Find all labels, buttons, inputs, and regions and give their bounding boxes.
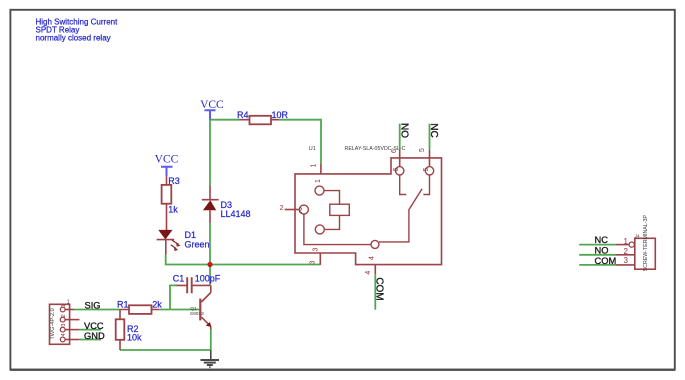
resistor R3 <box>162 176 172 230</box>
svg-text:1: 1 <box>311 163 318 167</box>
svg-text:GND: GND <box>84 331 105 341</box>
svg-text:COM: COM <box>595 256 617 266</box>
wire VCC1 down to D3 cathode <box>209 120 211 186</box>
transistor Q1 <box>199 285 211 329</box>
svg-text:2: 2 <box>299 207 303 214</box>
relay pin 6 <box>391 149 400 172</box>
svg-text:LL4148: LL4148 <box>221 209 251 219</box>
power flag VCC2 <box>155 154 179 177</box>
wire D1 cathode to junction A <box>166 255 210 265</box>
svg-text:1k: 1k <box>168 204 178 214</box>
wire NO net at relay pin6 <box>399 124 401 150</box>
svg-text:SIG: SIG <box>85 301 101 311</box>
wire R1 to Q1 base <box>159 309 199 311</box>
svg-text:10k: 10k <box>127 333 142 343</box>
relay pin 5 <box>419 148 430 172</box>
resistor R4 <box>240 116 280 125</box>
svg-text:NC: NC <box>428 123 439 137</box>
svg-text:R4: R4 <box>237 110 249 120</box>
svg-text:1: 1 <box>315 179 322 183</box>
svg-text:TWG-4P-2.0: TWG-4P-2.0 <box>50 308 56 339</box>
svg-text:VCC: VCC <box>84 321 104 331</box>
diode D3 <box>202 185 219 223</box>
relay pin 3 <box>310 247 321 264</box>
svg-text:10R: 10R <box>272 110 289 120</box>
svg-text:C1: C1 <box>173 274 185 284</box>
svg-text:D1: D1 <box>185 230 197 240</box>
connector P1 pin 2 <box>61 314 80 319</box>
svg-text:3: 3 <box>61 324 67 327</box>
svg-text:4: 4 <box>368 256 375 260</box>
svg-text:4: 4 <box>365 271 372 275</box>
wire junction A to relay pin3 <box>210 264 320 266</box>
wire junction A to Q1 collector <box>209 265 211 286</box>
svg-text:2: 2 <box>280 205 284 212</box>
svg-text:S9013: S9013 <box>190 311 204 317</box>
relay switch contacts <box>396 167 434 195</box>
svg-text:J4: J4 <box>635 234 640 239</box>
wire VCC stub at connector pin3 <box>79 329 101 331</box>
svg-text:R1: R1 <box>117 299 129 309</box>
LED D1 <box>157 230 181 255</box>
connector J4 pin 3 <box>615 256 635 265</box>
svg-text:4: 4 <box>61 333 67 336</box>
resistor R1 <box>120 305 159 314</box>
svg-text:3: 3 <box>624 256 629 265</box>
wire R2 bottom to ground net <box>120 349 211 351</box>
svg-text:5: 5 <box>423 167 430 171</box>
wire NC stub to J4 pin1 <box>579 244 615 246</box>
svg-text:COM: COM <box>374 277 385 300</box>
svg-text:3: 3 <box>310 260 317 264</box>
svg-text:NC: NC <box>595 235 609 245</box>
relay pin 2 <box>280 205 303 215</box>
svg-text:2k: 2k <box>152 299 162 309</box>
svg-text:3: 3 <box>313 247 320 251</box>
connector J4 pin 1 <box>615 237 634 247</box>
svg-text:Green: Green <box>185 240 210 250</box>
wire C1 left to base net <box>170 285 177 309</box>
relay coil <box>315 186 349 234</box>
connector J4 pin 2 <box>615 247 635 256</box>
power flag VCC1 <box>200 99 224 120</box>
svg-text:VCC: VCC <box>155 154 179 166</box>
wire R4 to relay pin1 <box>279 120 321 164</box>
svg-text:1: 1 <box>624 237 629 246</box>
svg-text:NO: NO <box>595 246 609 256</box>
connector P1 pin 1 <box>61 299 74 309</box>
svg-text:2: 2 <box>624 247 629 256</box>
svg-text:6: 6 <box>391 149 398 153</box>
wire D3 anode to junction A <box>209 223 211 264</box>
capacitor C1 <box>177 277 211 293</box>
svg-text:R3: R3 <box>168 176 180 186</box>
svg-text:SCREW-TERMINAL-3P: SCREW-TERMINAL-3P <box>643 215 649 272</box>
svg-text:NO: NO <box>398 123 409 138</box>
relay U1 body <box>295 146 442 265</box>
wire GND stub at connector pin4 <box>79 339 101 341</box>
svg-text:5: 5 <box>419 148 426 152</box>
relay armature and pin2 link <box>299 189 422 249</box>
connector P1 pin 3 <box>61 324 79 330</box>
junction A dot <box>207 262 212 267</box>
relay pin 4 <box>365 256 375 275</box>
svg-text:2: 2 <box>61 314 67 317</box>
svg-text:100pF: 100pF <box>195 274 221 284</box>
wire COM stub to J4 pin3 <box>579 264 615 266</box>
ground <box>201 350 220 367</box>
svg-text:U1: U1 <box>309 146 316 152</box>
wire Q1 emitter to ground net <box>210 330 212 351</box>
svg-text:1: 1 <box>67 299 70 305</box>
wire NO stub to J4 pin2 <box>579 254 615 256</box>
svg-text:6: 6 <box>393 167 400 171</box>
wire VCC1 to R4 <box>210 119 240 121</box>
wire SIG connector to R1 <box>74 309 120 311</box>
connector P1 TWG-4P-2.0 <box>50 304 70 344</box>
relay pin 1 <box>311 163 323 183</box>
wire COM net at relay pin4 <box>374 274 376 309</box>
connector P1 pin 4 <box>61 333 79 339</box>
wire NC net at relay pin5 <box>429 124 431 150</box>
connector J4 SCREW-TERMINAL-3P <box>635 215 656 272</box>
svg-text:normally closed relay: normally closed relay <box>36 33 111 42</box>
resistor R2 <box>116 310 125 351</box>
